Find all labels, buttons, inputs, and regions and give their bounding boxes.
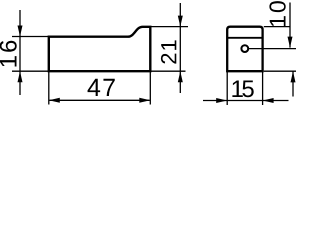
dim 15: left arrow (points right) <box>216 98 227 103</box>
dim 21: lower arrow (points up) <box>178 71 183 82</box>
dim 21: top extension line <box>151 26 188 28</box>
dim 15: label <box>232 81 253 98</box>
dim 21: bottom extension line <box>152 70 186 72</box>
right view: inner step line <box>227 37 262 39</box>
dim 47: right extension line <box>149 71 151 104</box>
dim 16: lower arrow (points up) <box>18 71 23 82</box>
dim 47: label <box>88 79 115 96</box>
dim 16: dimension line <box>19 10 21 95</box>
dim 10: label <box>269 1 285 26</box>
dim 47: left extension line <box>48 71 50 104</box>
dim 21: upper arrow (points down) <box>178 16 183 27</box>
dim 47: right arrow (points right) <box>139 98 150 103</box>
dim 47: left arrow (points left) <box>49 98 60 103</box>
dim 47: dimension line <box>49 99 149 101</box>
dim 16: bottom extension line <box>12 70 48 72</box>
dim 15: right extension line <box>262 71 264 105</box>
right view: hole <box>241 45 248 52</box>
dim 16: upper arrow (points down) <box>18 26 23 37</box>
dim 10: upper dimension line <box>289 3 291 48</box>
left view: hook body outline <box>49 27 151 71</box>
dim 21: dimension line <box>179 3 181 93</box>
dim 21: label <box>161 40 176 63</box>
dim 15: left extension line <box>226 71 228 105</box>
dim 10: top extension line <box>264 26 290 28</box>
dim 10: lower dimension line <box>292 71 294 96</box>
dim 15: right arrow (points left) <box>263 98 274 103</box>
dim 16: label <box>0 41 17 67</box>
right view: plate outline <box>227 27 262 71</box>
dim 10: hole centre extension line <box>249 48 296 50</box>
dim 10: bottom extension line <box>264 70 296 72</box>
dim 10: arrow at bottom edge (points up) <box>291 71 296 82</box>
dim 15: dimension line <box>203 100 289 102</box>
dim 10: arrow at hole centre (points down) <box>288 37 293 48</box>
dim 16: top extension line <box>12 36 48 38</box>
